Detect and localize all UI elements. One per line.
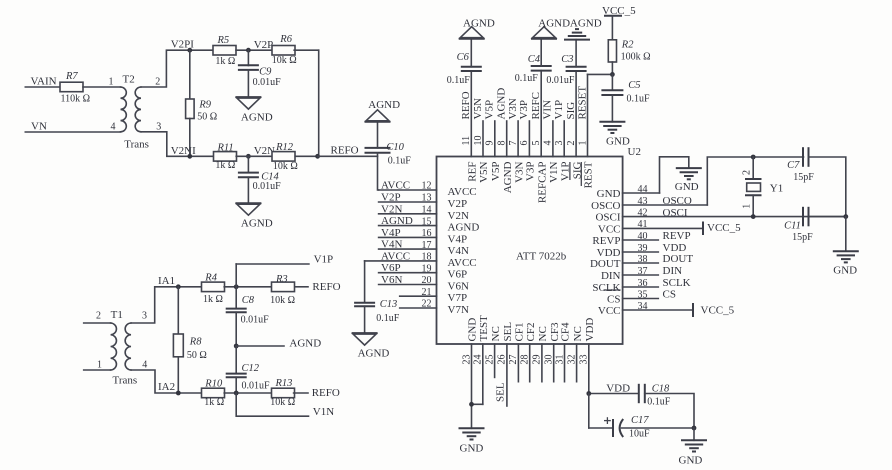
- junction VDD node: [586, 391, 591, 396]
- wire T1 pin 3 to node IA1: [131, 287, 202, 323]
- svg-text:NC: NC: [572, 326, 584, 341]
- transformer T1 primary winding: [111, 323, 117, 370]
- svg-text:0.1uF: 0.1uF: [376, 313, 400, 324]
- resistor R7: [60, 82, 83, 92]
- wire RESET to junction: [588, 73, 613, 75]
- resistor R11: [214, 152, 237, 162]
- wire pin 23 bottom: [471, 344, 473, 428]
- wire pin 27 bottom: [517, 344, 519, 382]
- transformer T2 primary winding: [121, 87, 127, 132]
- svg-text:10k Ω: 10k Ω: [273, 161, 298, 172]
- svg-text:2: 2: [742, 170, 753, 175]
- svg-text:C3: C3: [561, 54, 573, 65]
- svg-text:V2P: V2P: [448, 198, 468, 210]
- wire pin 42 right stub: [623, 216, 846, 218]
- svg-text:17: 17: [422, 240, 432, 251]
- svg-text:SCLK: SCLK: [663, 277, 691, 289]
- wire pin 30 bottom: [553, 344, 555, 382]
- svg-text:AGND: AGND: [463, 17, 495, 29]
- junction R8 bottom: [176, 391, 181, 396]
- svg-text:1k Ω: 1k Ω: [204, 397, 224, 408]
- junction crystal top: [751, 155, 756, 160]
- svg-text:14: 14: [422, 205, 432, 216]
- svg-text:44: 44: [638, 184, 648, 195]
- svg-text:12: 12: [422, 181, 432, 192]
- capacitor C13: [354, 302, 375, 304]
- svg-text:C9: C9: [259, 67, 272, 78]
- svg-text:OSCI: OSCI: [663, 207, 688, 219]
- svg-text:0.1uF: 0.1uF: [647, 397, 671, 408]
- svg-text:R7: R7: [65, 71, 78, 82]
- svg-text:T2: T2: [123, 74, 135, 86]
- svg-text:IA1: IA1: [158, 275, 175, 287]
- junction REFO bus: [315, 154, 320, 159]
- svg-text:0.01uF: 0.01uF: [242, 381, 271, 392]
- wire C14 to AGND: [247, 177, 249, 203]
- svg-text:10uF: 10uF: [629, 429, 650, 440]
- svg-text:AGND: AGND: [368, 99, 400, 111]
- resistor R5: [213, 46, 236, 56]
- svg-text:0.01uF: 0.01uF: [241, 314, 270, 325]
- wire net VN: [25, 131, 120, 133]
- svg-text:3: 3: [142, 311, 147, 322]
- wire junction to C5: [611, 74, 613, 90]
- svg-text:V4P: V4P: [448, 233, 468, 245]
- wire junction to GND: [693, 428, 695, 440]
- wire OSCO net: [707, 157, 803, 205]
- svg-text:0.01uF: 0.01uF: [546, 75, 575, 86]
- svg-text:R13: R13: [275, 378, 293, 389]
- svg-text:AGND: AGND: [502, 161, 514, 193]
- wire T1 pin 4 to node IA2: [131, 370, 202, 393]
- svg-text:43: 43: [638, 196, 648, 207]
- ground GND below C5: [599, 121, 625, 123]
- svg-text:3: 3: [554, 141, 565, 146]
- wire R3 to REFO: [295, 286, 308, 288]
- svg-text:V4P: V4P: [381, 227, 401, 239]
- capacitor C18: [638, 384, 640, 403]
- power VCC_5 at pin 34: [692, 303, 694, 317]
- svg-text:VAIN: VAIN: [31, 76, 57, 88]
- svg-text:0.01uF: 0.01uF: [253, 181, 282, 192]
- capacitor C12: [235, 346, 237, 374]
- ground AGND below C14: [235, 202, 261, 204]
- capacitor C17 polarized: [604, 420, 611, 422]
- wire net VAIN: [25, 86, 60, 88]
- svg-text:5: 5: [531, 141, 542, 146]
- svg-text:36: 36: [638, 278, 648, 289]
- svg-text:R8: R8: [189, 336, 202, 347]
- svg-text:29: 29: [532, 355, 543, 365]
- transformer T1 pin1 stub: [84, 369, 111, 371]
- svg-text:0.1uF: 0.1uF: [627, 93, 651, 104]
- wire pin 13 left stub: [379, 201, 437, 203]
- wire pin 19 left stub: [379, 272, 437, 274]
- capacitor C7: [802, 147, 804, 167]
- ground AGND above C10: [365, 121, 391, 123]
- svg-text:21: 21: [422, 287, 432, 298]
- capacitor C14: [247, 156, 249, 172]
- svg-text:33: 33: [579, 355, 590, 365]
- capacitor C6: [461, 66, 482, 68]
- wire C12 to IA2 row: [235, 377, 237, 393]
- wire pin 3 top: [563, 121, 565, 157]
- svg-text:38: 38: [638, 254, 648, 265]
- svg-text:AGND: AGND: [241, 111, 273, 123]
- svg-text:V6P: V6P: [448, 269, 468, 281]
- svg-text:1k Ω: 1k Ω: [203, 294, 223, 305]
- svg-text:CF1: CF1: [514, 323, 526, 342]
- svg-text:V2N: V2N: [381, 203, 402, 215]
- svg-text:REFO: REFO: [312, 281, 340, 293]
- svg-text:VN: VN: [31, 121, 47, 133]
- svg-text:IA2: IA2: [158, 381, 175, 393]
- wire pin 14 left stub: [379, 213, 437, 215]
- wire R4 to mid node: [224, 286, 271, 288]
- svg-text:R10: R10: [204, 379, 223, 390]
- wire C13 to AGND: [364, 306, 366, 333]
- svg-text:34: 34: [638, 301, 648, 312]
- svg-text:AVCC: AVCC: [448, 186, 477, 198]
- svg-text:10k Ω: 10k Ω: [270, 397, 295, 408]
- svg-text:1: 1: [577, 141, 588, 146]
- wire R13 to REFO: [294, 392, 308, 394]
- ground AGND above C4: [531, 38, 557, 40]
- svg-text:REF: REF: [467, 162, 479, 182]
- svg-text:V3N: V3N: [507, 98, 519, 119]
- svg-text:1: 1: [97, 360, 102, 371]
- transformer T2 secondary winding: [135, 87, 141, 132]
- svg-text:CF4: CF4: [560, 322, 572, 341]
- wire V1P down to IA1 row: [235, 264, 237, 287]
- svg-text:15: 15: [422, 216, 432, 227]
- svg-text:AGND: AGND: [241, 217, 273, 229]
- svg-text:V5P: V5P: [490, 162, 502, 182]
- svg-text:SEL: SEL: [502, 322, 514, 342]
- svg-text:2: 2: [155, 77, 160, 88]
- svg-text:V4N: V4N: [448, 245, 469, 257]
- wire pin 12 left stub: [379, 189, 437, 191]
- wire pin 9 top: [494, 121, 496, 157]
- wire C6 to AGND: [470, 39, 472, 67]
- svg-text:GND: GND: [467, 318, 479, 342]
- svg-text:GND: GND: [833, 265, 857, 277]
- svg-text:11: 11: [461, 136, 472, 146]
- svg-text:V2NI: V2NI: [171, 145, 196, 157]
- resistor R4: [202, 282, 225, 292]
- svg-text:VCC_5: VCC_5: [701, 305, 735, 317]
- svg-text:V5N: V5N: [478, 161, 490, 182]
- wire C7 right to GND bus: [809, 157, 846, 217]
- resistor R3: [272, 282, 295, 292]
- svg-text:15pF: 15pF: [792, 232, 813, 243]
- wire pin 15 left stub: [379, 225, 437, 227]
- resistor R13: [272, 388, 295, 398]
- wire C17 to GND junction: [622, 427, 695, 429]
- svg-text:6: 6: [519, 141, 530, 146]
- wire pin 36 right stub: [623, 286, 659, 288]
- svg-text:V7N: V7N: [448, 304, 469, 316]
- wire pin 25 bottom: [494, 344, 496, 377]
- svg-text:REST: REST: [583, 161, 595, 188]
- svg-text:0.01uF: 0.01uF: [253, 77, 282, 88]
- svg-text:15pF: 15pF: [793, 172, 814, 183]
- svg-text:V3P: V3P: [525, 162, 537, 182]
- svg-text:10k Ω: 10k Ω: [272, 55, 297, 66]
- svg-text:V2P: V2P: [381, 192, 401, 204]
- svg-text:DIN: DIN: [663, 265, 683, 277]
- junction GND bus: [843, 214, 848, 219]
- junction node V2N: [246, 154, 251, 159]
- svg-text:C8: C8: [242, 295, 255, 306]
- svg-text:19: 19: [422, 263, 432, 274]
- svg-text:100k Ω: 100k Ω: [621, 52, 651, 63]
- svg-text:GND: GND: [606, 136, 630, 148]
- wire pin 20 left stub: [379, 284, 437, 286]
- svg-text:42: 42: [638, 207, 648, 218]
- resistor R6: [272, 46, 295, 56]
- svg-text:28: 28: [520, 355, 531, 365]
- wire R6 to right bus: [294, 49, 319, 51]
- svg-text:C17: C17: [631, 415, 649, 426]
- wire pin 44 to GND: [660, 157, 689, 193]
- svg-text:REFC: REFC: [530, 92, 542, 120]
- svg-text:Trans: Trans: [113, 375, 138, 387]
- wire pin 28 bottom: [529, 344, 531, 382]
- svg-text:C10: C10: [386, 142, 404, 153]
- wire VCC_5 to R2: [611, 16, 613, 40]
- svg-text:C11: C11: [784, 221, 801, 232]
- svg-text:VDD: VDD: [584, 318, 596, 342]
- wire VDD node down: [588, 394, 590, 429]
- svg-text:C6: C6: [457, 52, 470, 63]
- svg-text:32: 32: [566, 355, 577, 365]
- svg-text:Trans: Trans: [124, 139, 149, 151]
- wire pin 11 top: [470, 71, 472, 157]
- svg-text:R3: R3: [275, 274, 288, 285]
- svg-text:2: 2: [96, 311, 101, 322]
- capacitor C8: [235, 287, 237, 309]
- svg-text:1: 1: [742, 204, 753, 209]
- svg-text:DOUT: DOUT: [663, 253, 694, 265]
- crystal Y1: [752, 157, 754, 179]
- svg-text:V6P: V6P: [381, 262, 401, 274]
- svg-text:V6N: V6N: [381, 274, 402, 286]
- svg-text:31: 31: [554, 355, 565, 365]
- svg-text:4: 4: [142, 360, 147, 371]
- wire C5 to GND: [611, 95, 613, 122]
- wire R7 to T2 pin 1: [83, 86, 121, 88]
- svg-text:VDD: VDD: [606, 383, 630, 395]
- svg-text:0.1uF: 0.1uF: [515, 73, 539, 84]
- wire R12 to bus junction: [295, 155, 319, 157]
- wire pin 7 top: [517, 121, 519, 157]
- ground AGND below C13: [352, 332, 378, 334]
- capacitor C9: [247, 50, 249, 65]
- svg-text:3: 3: [156, 122, 161, 133]
- wire AGND row: [236, 345, 284, 347]
- wire pin 41 right stub: [623, 227, 703, 229]
- svg-text:AGND: AGND: [570, 17, 602, 29]
- wire pin 24 to pin 23: [472, 403, 483, 405]
- svg-text:V3N: V3N: [513, 161, 525, 182]
- svg-text:8: 8: [497, 141, 508, 146]
- svg-text:40: 40: [638, 231, 648, 242]
- svg-text:25: 25: [484, 355, 495, 365]
- ground GND below crystal: [833, 250, 859, 252]
- ground AGND above C6: [459, 38, 485, 40]
- wire C11 to GND bus: [809, 216, 846, 218]
- svg-text:AVCC: AVCC: [381, 250, 410, 262]
- svg-text:REFO: REFO: [331, 145, 359, 157]
- transformer T1 pin2 stub: [84, 322, 111, 324]
- svg-text:GND: GND: [460, 443, 484, 455]
- capacitor C3: [566, 66, 587, 68]
- junction IA2 mid node: [234, 391, 239, 396]
- wire pin 29 bottom: [541, 344, 543, 382]
- svg-text:Y1: Y1: [770, 182, 783, 194]
- junction IA1 mid node: [234, 284, 239, 289]
- svg-text:10: 10: [473, 136, 484, 146]
- svg-text:27: 27: [508, 355, 519, 365]
- wire pin 33 bottom: [588, 344, 590, 394]
- svg-text:REVP: REVP: [592, 235, 620, 247]
- wire pin 32 bottom: [576, 344, 578, 382]
- svg-text:NC: NC: [537, 326, 549, 341]
- svg-text:V1N: V1N: [313, 406, 334, 418]
- capacitor C5: [601, 89, 623, 91]
- wire pin 6 top: [528, 121, 530, 157]
- svg-text:V4N: V4N: [381, 239, 402, 251]
- wire pin 10 top: [482, 121, 484, 157]
- wire pin 18 left stub: [365, 260, 437, 262]
- junction R9 bottom: [187, 154, 192, 159]
- wire C8 to AGND row: [235, 312, 237, 346]
- svg-text:39: 39: [638, 243, 648, 254]
- svg-text:VCC: VCC: [598, 223, 621, 235]
- svg-text:4: 4: [111, 122, 116, 133]
- svg-text:CF2: CF2: [525, 323, 537, 342]
- svg-text:24: 24: [473, 355, 484, 365]
- wire pin 21 left stub: [400, 295, 437, 297]
- ground AGND above C3: [575, 28, 579, 30]
- junction R9 top: [187, 48, 192, 53]
- wire pin 33 VDD node: [589, 393, 638, 395]
- junction R8 top: [176, 284, 181, 289]
- svg-text:AVCC: AVCC: [381, 180, 410, 192]
- wire pin 16 left stub: [379, 236, 437, 238]
- svg-text:OSCI: OSCI: [595, 212, 620, 224]
- svg-text:V1N: V1N: [548, 161, 560, 182]
- svg-text:VCC_5: VCC_5: [707, 222, 741, 234]
- svg-text:10k Ω: 10k Ω: [270, 295, 295, 306]
- wire GND bus down: [845, 217, 847, 252]
- svg-text:NC: NC: [490, 326, 502, 341]
- svg-text:V5P: V5P: [484, 100, 496, 120]
- svg-text:DOUT: DOUT: [590, 258, 621, 270]
- wire C10 to AGND: [377, 122, 379, 148]
- wire pin 1 top: [587, 74, 589, 156]
- capacitor C4: [531, 65, 552, 67]
- wire R5 to node V2P: [236, 49, 273, 51]
- svg-text:AGND: AGND: [448, 222, 480, 234]
- svg-text:4: 4: [543, 141, 554, 146]
- svg-text:22: 22: [422, 299, 432, 310]
- svg-text:R4: R4: [204, 273, 217, 284]
- wire to C17: [589, 427, 613, 429]
- wire pin 44 right stub: [623, 192, 660, 194]
- svg-text:C5: C5: [628, 80, 640, 91]
- junction AGND row: [234, 344, 239, 349]
- svg-text:VCC: VCC: [598, 305, 621, 317]
- wire R10 to mid node: [224, 392, 272, 394]
- wire pin 35 right stub: [623, 298, 659, 300]
- svg-text:V7P: V7P: [448, 292, 468, 304]
- wire T2 pin 2 to node V2PI: [141, 50, 214, 87]
- capacitor C10: [365, 147, 391, 149]
- svg-text:C13: C13: [380, 299, 398, 310]
- svg-text:R2: R2: [621, 40, 634, 51]
- svg-text:V1P: V1P: [553, 100, 565, 120]
- ground GND below pin 23: [459, 427, 485, 429]
- wire pin 4 top: [552, 121, 554, 157]
- capacitor C11: [802, 207, 804, 227]
- resistor R9: [189, 50, 191, 99]
- wire pin 2 top: [575, 71, 577, 157]
- svg-text:50 Ω: 50 Ω: [187, 350, 207, 361]
- svg-text:AGND: AGND: [381, 215, 413, 227]
- svg-text:0.1uF: 0.1uF: [388, 155, 412, 166]
- wire pin 31 bottom: [564, 344, 566, 382]
- svg-text:C4: C4: [528, 54, 541, 65]
- resistor R12: [272, 152, 295, 162]
- svg-text:OSCO: OSCO: [591, 200, 620, 212]
- wire pin 43 right stub: [623, 204, 708, 206]
- junction pins 23-24: [469, 402, 474, 407]
- svg-text:V2N: V2N: [448, 210, 469, 222]
- svg-text:V5N: V5N: [472, 98, 484, 119]
- svg-text:R5: R5: [217, 35, 230, 46]
- wire pin 37 right stub: [623, 274, 659, 276]
- wire V1P: [236, 263, 309, 265]
- svg-text:R11: R11: [217, 143, 234, 154]
- power VCC_5 at pin 41: [702, 222, 704, 236]
- svg-text:REVP: REVP: [663, 230, 691, 242]
- wire C3 to AGND: [575, 40, 577, 67]
- svg-text:AVCC: AVCC: [448, 257, 477, 269]
- junction RESET node: [610, 72, 615, 77]
- svg-text:30: 30: [544, 355, 555, 365]
- svg-text:REFO: REFO: [312, 387, 340, 399]
- wire pin 22 left stub: [400, 307, 437, 309]
- wire C10 to pin 12 AVCC: [378, 153, 379, 190]
- junction node V2P: [246, 48, 251, 53]
- wire pin 17 left stub: [379, 248, 437, 250]
- svg-text:AGND: AGND: [358, 347, 390, 359]
- svg-text:1k Ω: 1k Ω: [215, 56, 235, 67]
- op-amp U2 ATT7022b body: [437, 157, 623, 345]
- svg-text:REFCAP: REFCAP: [536, 162, 548, 204]
- svg-text:DIN: DIN: [601, 270, 621, 282]
- svg-text:20: 20: [422, 275, 432, 286]
- svg-text:R12: R12: [275, 142, 294, 153]
- wire pin 40 right stub: [623, 239, 659, 241]
- wire right bus vertical: [318, 50, 320, 156]
- svg-text:GND: GND: [679, 455, 703, 467]
- svg-text:T1: T1: [111, 309, 123, 321]
- svg-text:SIG: SIG: [565, 102, 577, 120]
- svg-text:V2P: V2P: [254, 39, 274, 51]
